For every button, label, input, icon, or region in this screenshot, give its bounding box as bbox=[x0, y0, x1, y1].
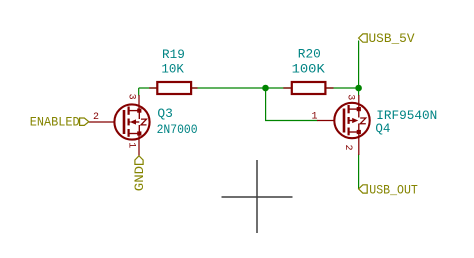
crosshair marker bbox=[222, 160, 293, 233]
label USB_5V bbox=[359, 34, 368, 42]
svg-text:USB_OUT: USB_OUT bbox=[369, 183, 418, 198]
svg-text:3: 3 bbox=[345, 94, 356, 100]
svg-text:Q4: Q4 bbox=[375, 121, 390, 136]
svg-text:ENABLED: ENABLED bbox=[30, 115, 80, 130]
svg-text:R19: R19 bbox=[162, 47, 185, 62]
svg-text:GND: GND bbox=[132, 166, 147, 192]
node junction B bbox=[355, 85, 362, 92]
svg-text:USB_5V: USB_5V bbox=[369, 31, 415, 46]
svg-text:2: 2 bbox=[342, 145, 353, 151]
wire Q4 source to USB_OUT bbox=[358, 155, 360, 189]
svg-text:1: 1 bbox=[312, 112, 318, 123]
transistor Q4 IRF9540N bbox=[317, 95, 370, 155]
wire USB_5V vertical bbox=[358, 41, 360, 96]
wire main rail y=88 bbox=[139, 87, 359, 89]
label USB_OUT bbox=[359, 185, 368, 193]
node junction A bbox=[262, 85, 269, 92]
svg-text:R20: R20 bbox=[298, 47, 321, 62]
svg-text:10K: 10K bbox=[161, 62, 184, 77]
svg-text:100K: 100K bbox=[292, 62, 325, 77]
wire Q3 drain drop bbox=[138, 88, 140, 96]
svg-text:3: 3 bbox=[125, 94, 136, 100]
label ENABLED bbox=[80, 118, 89, 125]
label GND bbox=[135, 156, 143, 165]
svg-text:2: 2 bbox=[93, 112, 99, 123]
transistor Q3 2N7000 bbox=[89, 95, 150, 156]
wire junction A to Q4 gate bbox=[266, 88, 318, 121]
svg-text:Q3: Q3 bbox=[157, 106, 173, 121]
svg-text:1: 1 bbox=[126, 142, 137, 148]
resistor R19 bbox=[149, 82, 197, 94]
resistor R20 bbox=[283, 82, 333, 94]
svg-text:2N7000: 2N7000 bbox=[157, 122, 198, 137]
